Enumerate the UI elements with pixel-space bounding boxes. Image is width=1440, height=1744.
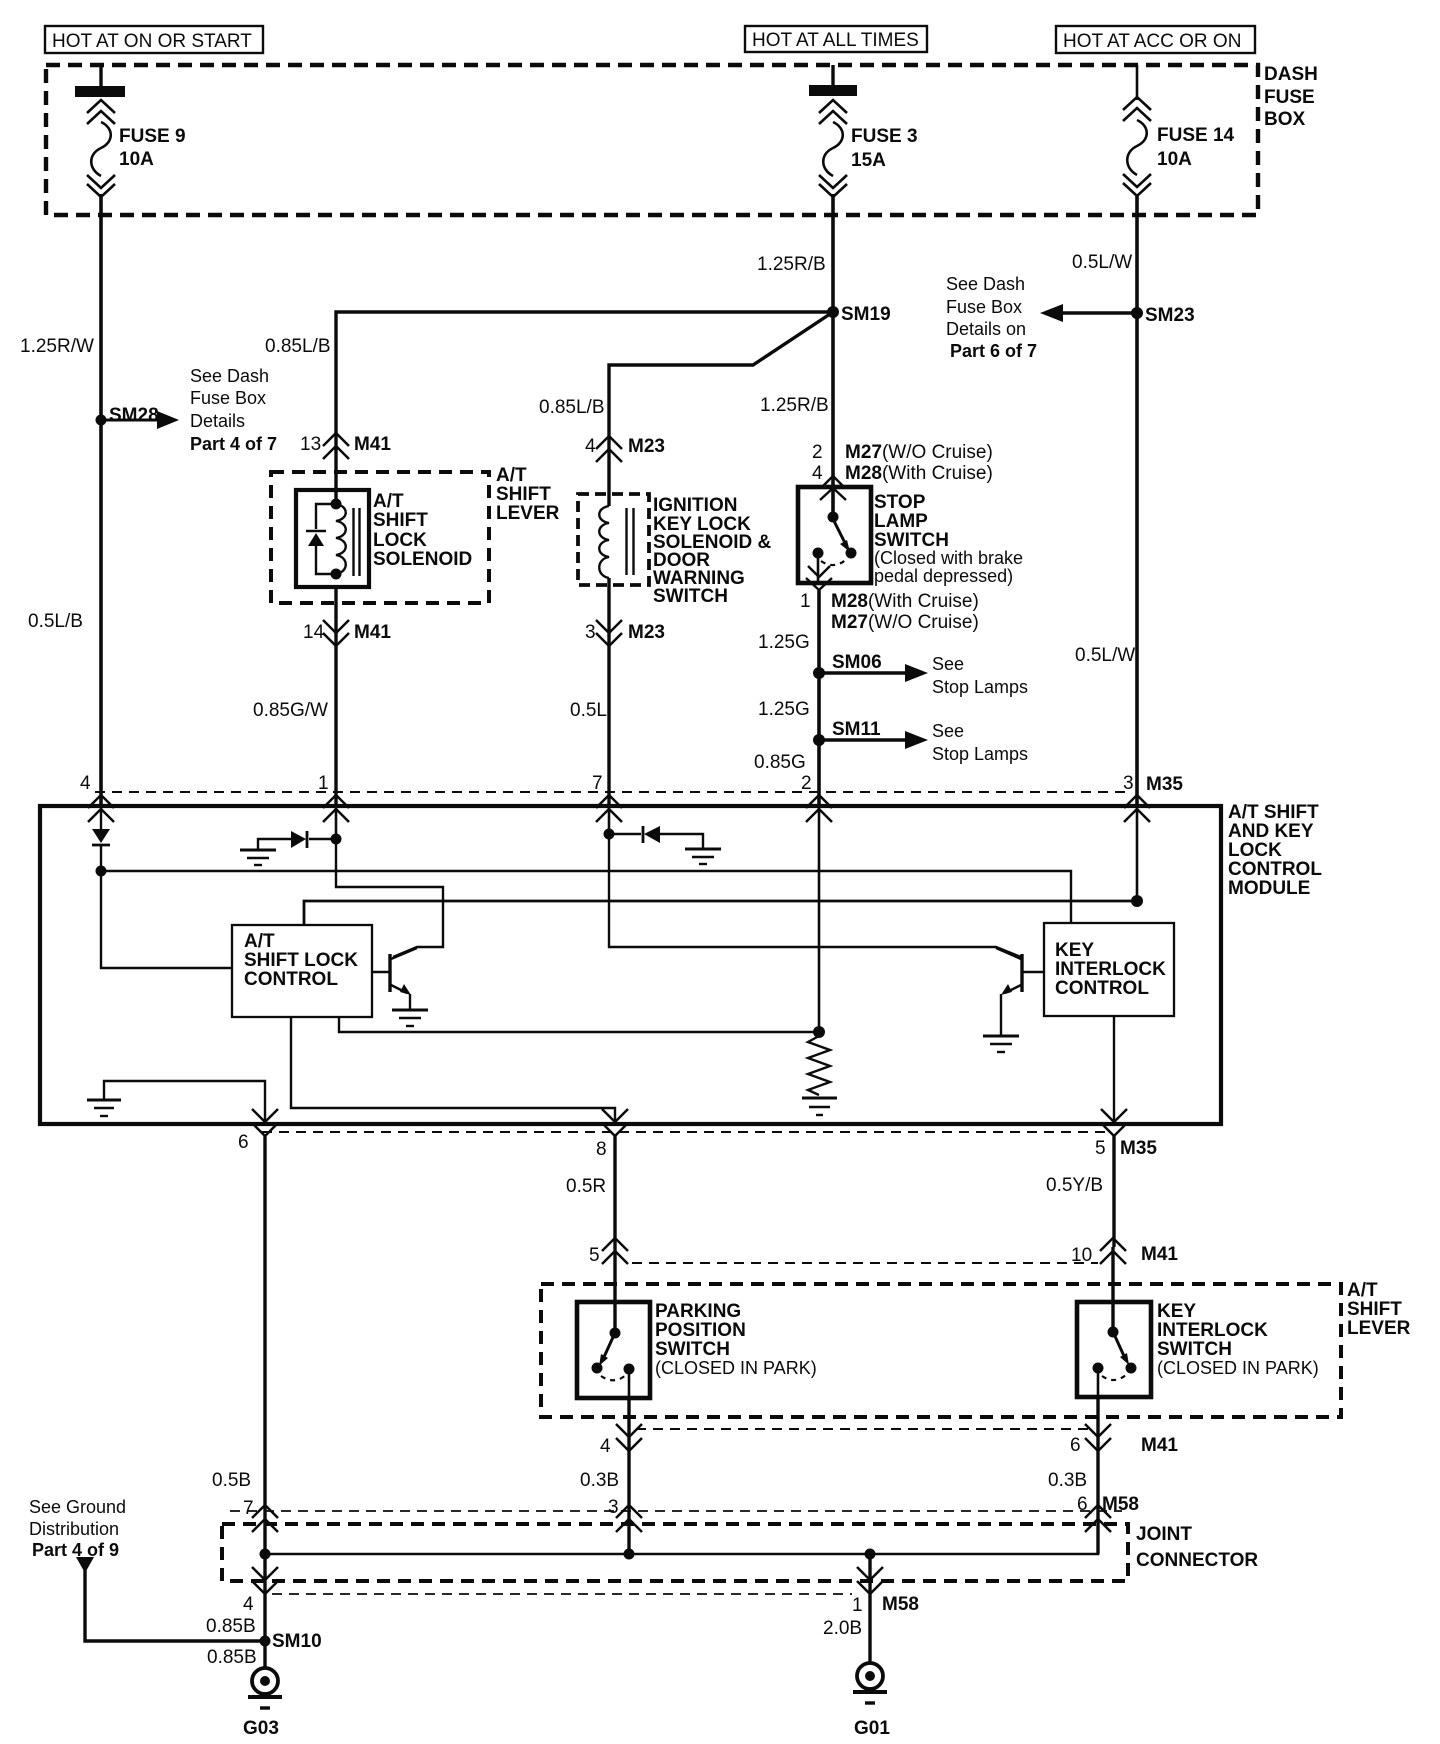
svg-text:M41: M41: [354, 434, 391, 455]
svg-text:SM23: SM23: [1145, 305, 1195, 326]
connector joint pin4: [243, 1567, 278, 1615]
solenoid A/T SHIFT LOCK SOLENOID: [296, 490, 472, 587]
svg-text:5: 5: [589, 1245, 600, 1266]
svg-text:0.5L/B: 0.5L/B: [28, 611, 83, 632]
svg-text:Fuse Box: Fuse Box: [190, 388, 266, 408]
ground (Q2 emitter): [983, 1036, 1019, 1052]
svg-text:(CLOSED IN PARK): (CLOSED IN PARK): [655, 1358, 817, 1378]
dash fuse box enclosure: [46, 64, 1318, 215]
wire shift lock box to resistor node: [339, 1017, 819, 1032]
svg-text:SHIFT: SHIFT: [373, 510, 428, 531]
svg-text:7: 7: [592, 773, 603, 794]
wire M58 connector dashed boundary bottom: [272, 1593, 852, 1595]
svg-text:See: See: [932, 721, 964, 741]
splice SM28 with arrow: [96, 366, 278, 454]
svg-text:CONTROL: CONTROL: [1228, 859, 1322, 880]
svg-text:CONTROL: CONTROL: [244, 969, 338, 990]
splice SM06 with arrow: [813, 652, 1028, 697]
wire shift lock box to pin8: [291, 1017, 615, 1124]
node see ground distribution: [29, 1497, 126, 1573]
svg-text:10A: 10A: [1157, 149, 1192, 170]
svg-text:G03: G03: [243, 1718, 279, 1739]
svg-text:0.5L/W: 0.5L/W: [1075, 645, 1135, 666]
svg-text:SM11: SM11: [832, 719, 881, 740]
svg-text:JOINT: JOINT: [1136, 1524, 1192, 1545]
ground (R1): [802, 1098, 837, 1115]
switch KEY INTERLOCK SWITCH: [1077, 1301, 1319, 1397]
wire SM10 to ground distribution: [85, 1570, 265, 1641]
svg-text:A/T: A/T: [373, 491, 404, 512]
svg-text:M23: M23: [628, 436, 665, 457]
svg-text:2.0B: 2.0B: [823, 1618, 862, 1639]
svg-text:4: 4: [585, 436, 596, 457]
svg-text:3: 3: [608, 1497, 619, 1518]
svg-text:A/T: A/T: [496, 465, 527, 486]
svg-text:KEY: KEY: [1055, 940, 1094, 961]
svg-text:IGNITION: IGNITION: [653, 495, 737, 516]
op-amp box A/T SHIFT LOCK CONTROL: [232, 925, 372, 1017]
connector M58 pin6: [1077, 1494, 1139, 1532]
svg-text:10A: 10A: [119, 149, 154, 170]
wire M23-3 to module pin7: [570, 578, 609, 806]
wire joint connector bus: [265, 1533, 1098, 1554]
wire fuse9 to module pin4: [20, 194, 101, 806]
svg-text:Fuse Box: Fuse Box: [946, 297, 1022, 317]
wire fuse3 to stop lamp switch: [757, 194, 833, 517]
svg-text:4: 4: [812, 463, 823, 484]
svg-text:4: 4: [600, 1436, 611, 1457]
svg-text:SHIFT: SHIFT: [496, 484, 551, 505]
wire pin7 to Q2 collector: [609, 834, 1021, 957]
module A/T SHIFT AND KEY LOCK CONTROL MODULE box: [40, 802, 1322, 1124]
svg-text:G01: G01: [854, 1718, 890, 1739]
svg-text:PARKING: PARKING: [655, 1301, 741, 1322]
switch PARKING POSITION SWITCH: [577, 1301, 817, 1398]
svg-text:M28(With Cruise): M28(With Cruise): [831, 591, 979, 612]
svg-text:0.85G: 0.85G: [754, 752, 806, 773]
svg-text:LEVER: LEVER: [1347, 1318, 1411, 1339]
svg-text:BOX: BOX: [1264, 109, 1306, 130]
svg-text:See Dash: See Dash: [190, 366, 269, 386]
svg-text:M35: M35: [1146, 774, 1183, 795]
svg-text:1.25R/B: 1.25R/B: [760, 395, 829, 416]
connector M41 pin13: [300, 433, 391, 459]
svg-text:2: 2: [801, 773, 812, 794]
wire module pin2 to resistor node: [818, 806, 821, 1032]
svg-text:SHIFT: SHIFT: [1347, 1299, 1402, 1320]
svg-text:M28(With Cruise): M28(With Cruise): [845, 463, 993, 484]
svg-text:FUSE: FUSE: [1264, 87, 1315, 108]
connector M41 pin4: [600, 1424, 642, 1457]
harness dashed line at module top: [95, 791, 1125, 793]
svg-text:M41: M41: [1141, 1435, 1178, 1456]
svg-text:See Dash: See Dash: [946, 274, 1025, 294]
module pin labels bottom: [238, 1132, 1157, 1160]
node bus junction pin3: [624, 1549, 635, 1560]
wire parking switch to joint connector: [580, 1398, 629, 1554]
svg-text:0.85G/W: 0.85G/W: [253, 700, 328, 721]
svg-text:LAMP: LAMP: [874, 511, 928, 532]
wire pin3 net to shift lock control box: [304, 901, 1137, 925]
svg-text:15A: 15A: [851, 150, 886, 171]
connector M27/M28 pins 2,4: [812, 442, 993, 500]
svg-text:(CLOSED IN PARK): (CLOSED IN PARK): [1157, 1358, 1319, 1378]
module pin chevrons bottom: [252, 1109, 1127, 1136]
svg-text:pedal depressed): pedal depressed): [874, 566, 1013, 586]
node resistor junction: [813, 1026, 825, 1038]
wire module pin6 internal ground: [104, 1081, 265, 1124]
svg-text:1.25R/B: 1.25R/B: [757, 254, 826, 275]
node bus junction pin7: [260, 1549, 271, 1560]
svg-text:See Ground: See Ground: [29, 1497, 126, 1517]
svg-text:LOCK: LOCK: [1228, 840, 1282, 861]
wire M41 lower connector dashed boundary: [636, 1428, 1094, 1430]
svg-text:M41: M41: [1141, 1244, 1178, 1265]
svg-text:SOLENOID: SOLENOID: [373, 549, 472, 570]
svg-text:M58: M58: [1102, 1494, 1139, 1515]
svg-text:M27(W/O Cruise): M27(W/O Cruise): [831, 612, 979, 633]
wire SM19 to M23 branch: [539, 312, 833, 506]
svg-text:0.3B: 0.3B: [1048, 1470, 1087, 1491]
svg-text:1: 1: [852, 1595, 863, 1616]
svg-text:SM19: SM19: [841, 304, 891, 325]
svg-text:SM06: SM06: [832, 652, 882, 673]
svg-text:1.25G: 1.25G: [758, 699, 810, 720]
connector M41 pin5: [589, 1238, 628, 1266]
svg-text:2: 2: [812, 442, 823, 463]
ground (Q1 emitter): [392, 1010, 428, 1026]
fuse F3 15A: [809, 65, 918, 197]
svg-text:1.25G: 1.25G: [758, 632, 810, 653]
svg-text:SHIFT LOCK: SHIFT LOCK: [244, 950, 358, 971]
wire SM19 to M41 branch: [265, 312, 833, 504]
svg-text:STOP: STOP: [874, 492, 926, 513]
wire pin4 net to shift lock box: [101, 871, 232, 968]
svg-text:Distribution: Distribution: [29, 1519, 119, 1539]
node A junction pin4 net: [96, 866, 107, 877]
svg-text:FUSE 9: FUSE 9: [119, 126, 186, 147]
wire key interlock switch to joint connector: [1048, 1397, 1098, 1554]
svg-text:A/T SHIFT: A/T SHIFT: [1228, 802, 1319, 823]
svg-text:0.5L: 0.5L: [570, 700, 607, 721]
svg-text:INTERLOCK: INTERLOCK: [1157, 1320, 1268, 1341]
wire M41 connector dashed boundary: [632, 1262, 1098, 1264]
svg-text:0.5B: 0.5B: [212, 1470, 251, 1491]
connector M23 pin4: [585, 436, 665, 462]
splice SM23 with arrow: [946, 274, 1195, 361]
svg-text:SM28: SM28: [109, 405, 159, 426]
wire fuse14 to module pin3: [1072, 194, 1137, 806]
diode D2 clamp on pin1: [258, 831, 336, 849]
wire pin6 to joint connector: [212, 1136, 265, 1554]
connector M41 pin14: [303, 620, 391, 646]
harness dashed line at module bottom: [262, 1131, 1110, 1133]
diode D3 clamp on pin7: [609, 826, 703, 848]
svg-text:0.3B: 0.3B: [580, 1470, 619, 1491]
node label HOT AT ALL TIMES: [745, 26, 927, 52]
svg-text:SM10: SM10: [272, 1631, 322, 1652]
wire module pin1 down: [335, 806, 338, 839]
svg-text:A/T: A/T: [1347, 1280, 1378, 1301]
svg-text:HOT AT ALL TIMES: HOT AT ALL TIMES: [752, 30, 919, 51]
node junction pin7: [604, 829, 615, 840]
wire pin1 to Q1 collector: [336, 839, 443, 957]
node label HOT AT ON OR START: [45, 26, 263, 53]
node junction pin1: [331, 834, 342, 845]
svg-text:LEVER: LEVER: [496, 503, 560, 524]
svg-text:6: 6: [1077, 1494, 1088, 1515]
splice SM11 with arrow: [813, 719, 1028, 764]
connector M41 pin6: [1070, 1424, 1178, 1456]
wire M41-14 to module pin1: [253, 587, 336, 806]
svg-text:0.5Y/B: 0.5Y/B: [1046, 1175, 1103, 1196]
svg-text:LOCK: LOCK: [373, 530, 427, 551]
svg-text:M41: M41: [354, 622, 391, 643]
svg-text:FUSE 14: FUSE 14: [1157, 125, 1235, 146]
connector joint pin3: [608, 1497, 642, 1532]
wire pin4 net to key interlock box: [101, 871, 1071, 923]
svg-text:0.85B: 0.85B: [207, 1647, 257, 1668]
svg-text:14: 14: [303, 622, 325, 643]
svg-text:0.85B: 0.85B: [206, 1616, 256, 1637]
A/T shift lever enclosure (bottom): [541, 1280, 1411, 1417]
connector joint pin7: [243, 1498, 278, 1532]
svg-text:1: 1: [318, 773, 329, 794]
svg-text:4: 4: [243, 1594, 254, 1615]
svg-text:MODULE: MODULE: [1228, 878, 1310, 899]
svg-text:3: 3: [1123, 773, 1134, 794]
svg-text:SWITCH: SWITCH: [1157, 1339, 1232, 1360]
transistor Q2: [996, 948, 1044, 1035]
svg-text:3: 3: [585, 622, 596, 643]
svg-text:4: 4: [80, 773, 91, 794]
wire pin5(M35) to key interlock switch: [1046, 1136, 1114, 1332]
svg-text:SWITCH: SWITCH: [655, 1339, 730, 1360]
wire fuse14 pin3 into module: [1136, 806, 1139, 901]
svg-text:Part 4 of 7: Part 4 of 7: [190, 434, 277, 454]
svg-text:M23: M23: [628, 622, 665, 643]
svg-text:Stop Lamps: Stop Lamps: [932, 677, 1028, 697]
svg-text:See: See: [932, 654, 964, 674]
connector M28/M27 pin1: [800, 566, 979, 633]
svg-text:POSITION: POSITION: [655, 1320, 746, 1341]
resistor R1: [808, 1036, 830, 1095]
diode D1 on pin4: [92, 806, 110, 871]
module pin chevrons top: [88, 795, 1150, 822]
svg-text:Stop Lamps: Stop Lamps: [932, 744, 1028, 764]
wire key interlock box to pin5: [1113, 1016, 1115, 1124]
node bus junction M58 pin1: [865, 1549, 876, 1560]
wire stop lamp to module pin2: [754, 590, 819, 806]
svg-text:FUSE 3: FUSE 3: [851, 126, 918, 147]
wire module pin7 down: [608, 806, 611, 834]
svg-text:0.5L/W: 0.5L/W: [1072, 252, 1132, 273]
svg-text:INTERLOCK: INTERLOCK: [1055, 959, 1166, 980]
svg-text:Part 6 of 7: Part 6 of 7: [950, 341, 1037, 361]
op-amp box KEY INTERLOCK CONTROL: [1044, 923, 1174, 1016]
svg-text:Details: Details: [190, 411, 245, 431]
svg-text:HOT AT ACC OR ON: HOT AT ACC OR ON: [1063, 31, 1241, 52]
wire M58 pin1 to ground G01: [823, 1554, 870, 1663]
svg-text:8: 8: [596, 1139, 607, 1160]
ground (module): [87, 1100, 121, 1116]
svg-text:0.85L/B: 0.85L/B: [265, 336, 331, 357]
ground (D3): [685, 849, 721, 864]
solenoid IGNITION KEY LOCK SOLENOID & DOOR WARNING SWITCH: [578, 494, 772, 607]
svg-text:(Closed with brake: (Closed with brake: [874, 548, 1023, 568]
fuse F14 10A: [1123, 65, 1235, 196]
splice SM19: [827, 304, 891, 325]
svg-text:M58: M58: [882, 1594, 919, 1615]
wire M58 connector dashed boundary top: [230, 1510, 1122, 1512]
wire joint pin4 to ground G03: [206, 1554, 265, 1668]
svg-text:7: 7: [243, 1498, 254, 1519]
switch STOP LAMP SWITCH: [798, 487, 1023, 586]
svg-text:M35: M35: [1120, 1138, 1157, 1159]
svg-text:Details on: Details on: [946, 319, 1026, 339]
svg-text:M27(W/O Cruise): M27(W/O Cruise): [845, 442, 993, 463]
fuse F9 10A: [75, 65, 186, 197]
svg-text:CONNECTOR: CONNECTOR: [1136, 1550, 1258, 1571]
svg-text:KEY: KEY: [1157, 1301, 1196, 1322]
svg-text:0.85L/B: 0.85L/B: [539, 397, 605, 418]
node junction pin3 net: [1131, 895, 1143, 907]
svg-text:A/T: A/T: [244, 931, 275, 952]
svg-text:SWITCH: SWITCH: [653, 586, 728, 607]
svg-text:1.25R/W: 1.25R/W: [20, 336, 94, 357]
svg-text:5: 5: [1095, 1138, 1106, 1159]
connector M23 pin3: [585, 620, 665, 646]
node label HOT AT ACC OR ON: [1056, 26, 1255, 53]
transistor Q1: [372, 948, 417, 1009]
ground G01: [853, 1663, 890, 1739]
svg-text:AND KEY: AND KEY: [1228, 821, 1314, 842]
svg-text:HOT AT ON OR START: HOT AT ON OR START: [52, 31, 252, 52]
svg-text:CONTROL: CONTROL: [1055, 978, 1149, 999]
A/T shift lever enclosure (top): [271, 465, 560, 603]
svg-text:6: 6: [238, 1132, 249, 1153]
joint connector enclosure: [222, 1524, 1258, 1581]
ground (D2): [240, 850, 276, 865]
connector M58 pin1: [852, 1567, 919, 1616]
ground G03: [243, 1668, 282, 1739]
wire pin8 to parking switch: [566, 1136, 615, 1333]
svg-text:0.5R: 0.5R: [566, 1176, 606, 1197]
splice SM10: [260, 1631, 322, 1652]
svg-text:1: 1: [800, 591, 811, 612]
svg-text:13: 13: [300, 434, 321, 455]
svg-text:DASH: DASH: [1264, 64, 1318, 85]
module pin labels top: [80, 773, 1183, 795]
svg-text:Part 4 of 9: Part 4 of 9: [32, 1540, 119, 1560]
svg-text:6: 6: [1070, 1435, 1081, 1456]
connector M41 pin10: [1071, 1238, 1178, 1266]
